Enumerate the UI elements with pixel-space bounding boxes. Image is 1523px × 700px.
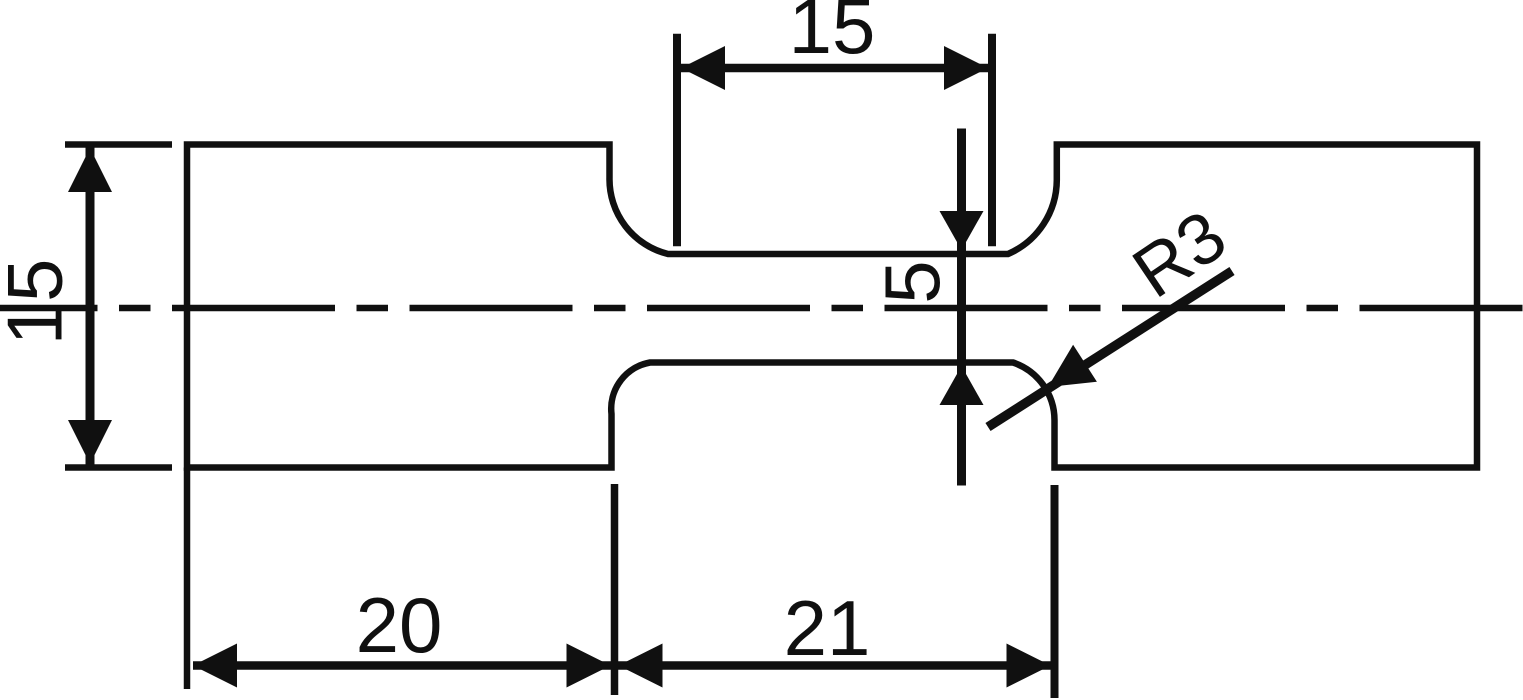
svg-text:15: 15: [0, 259, 79, 346]
left 15 dim: up arrowhead: [68, 148, 112, 192]
R3 leader arrowhead: [1048, 345, 1097, 387]
top 15 dim: dimension line: [679, 64, 990, 73]
21 dim: left arrowhead: [619, 644, 663, 688]
bottom dims: right extension line (x=1056): [1051, 485, 1059, 698]
wire: left edge extension line (for 20 dim): [184, 468, 191, 690]
specimen outline (dog-bone): [187, 145, 1477, 468]
20 dim: right arrowhead: [567, 644, 611, 688]
svg-text:21: 21: [784, 584, 871, 672]
top 15 dim: right extension line: [988, 34, 996, 247]
svg-text:5: 5: [868, 260, 956, 303]
centerline (dash-dot axis): [0, 305, 1523, 312]
svg-text:20: 20: [356, 581, 443, 669]
21 dim: right arrowhead: [1007, 644, 1051, 688]
R3 leader line: [988, 271, 1232, 427]
top 15 dim: left extension line: [673, 34, 681, 247]
left 15 dim: top tick: [65, 141, 172, 148]
top 15 dim: left arrowhead: [681, 46, 725, 90]
bottom dims: middle extension line (x=615): [611, 484, 619, 695]
left 15 dim: down arrowhead: [68, 420, 112, 464]
20/21 dims: dimension line: [193, 661, 1052, 670]
top 15 dim: right arrowhead: [944, 46, 988, 90]
5 dim: down arrowhead: [940, 211, 984, 250]
5 dim: up arrowhead: [940, 366, 984, 405]
5 dim: vertical line through gauge: [957, 129, 966, 486]
20 dim: left arrowhead: [193, 644, 237, 688]
left 15 dim: bottom tick: [65, 464, 172, 471]
left 15 dim: dimension line: [86, 146, 95, 466]
svg-text:15: 15: [789, 0, 876, 70]
